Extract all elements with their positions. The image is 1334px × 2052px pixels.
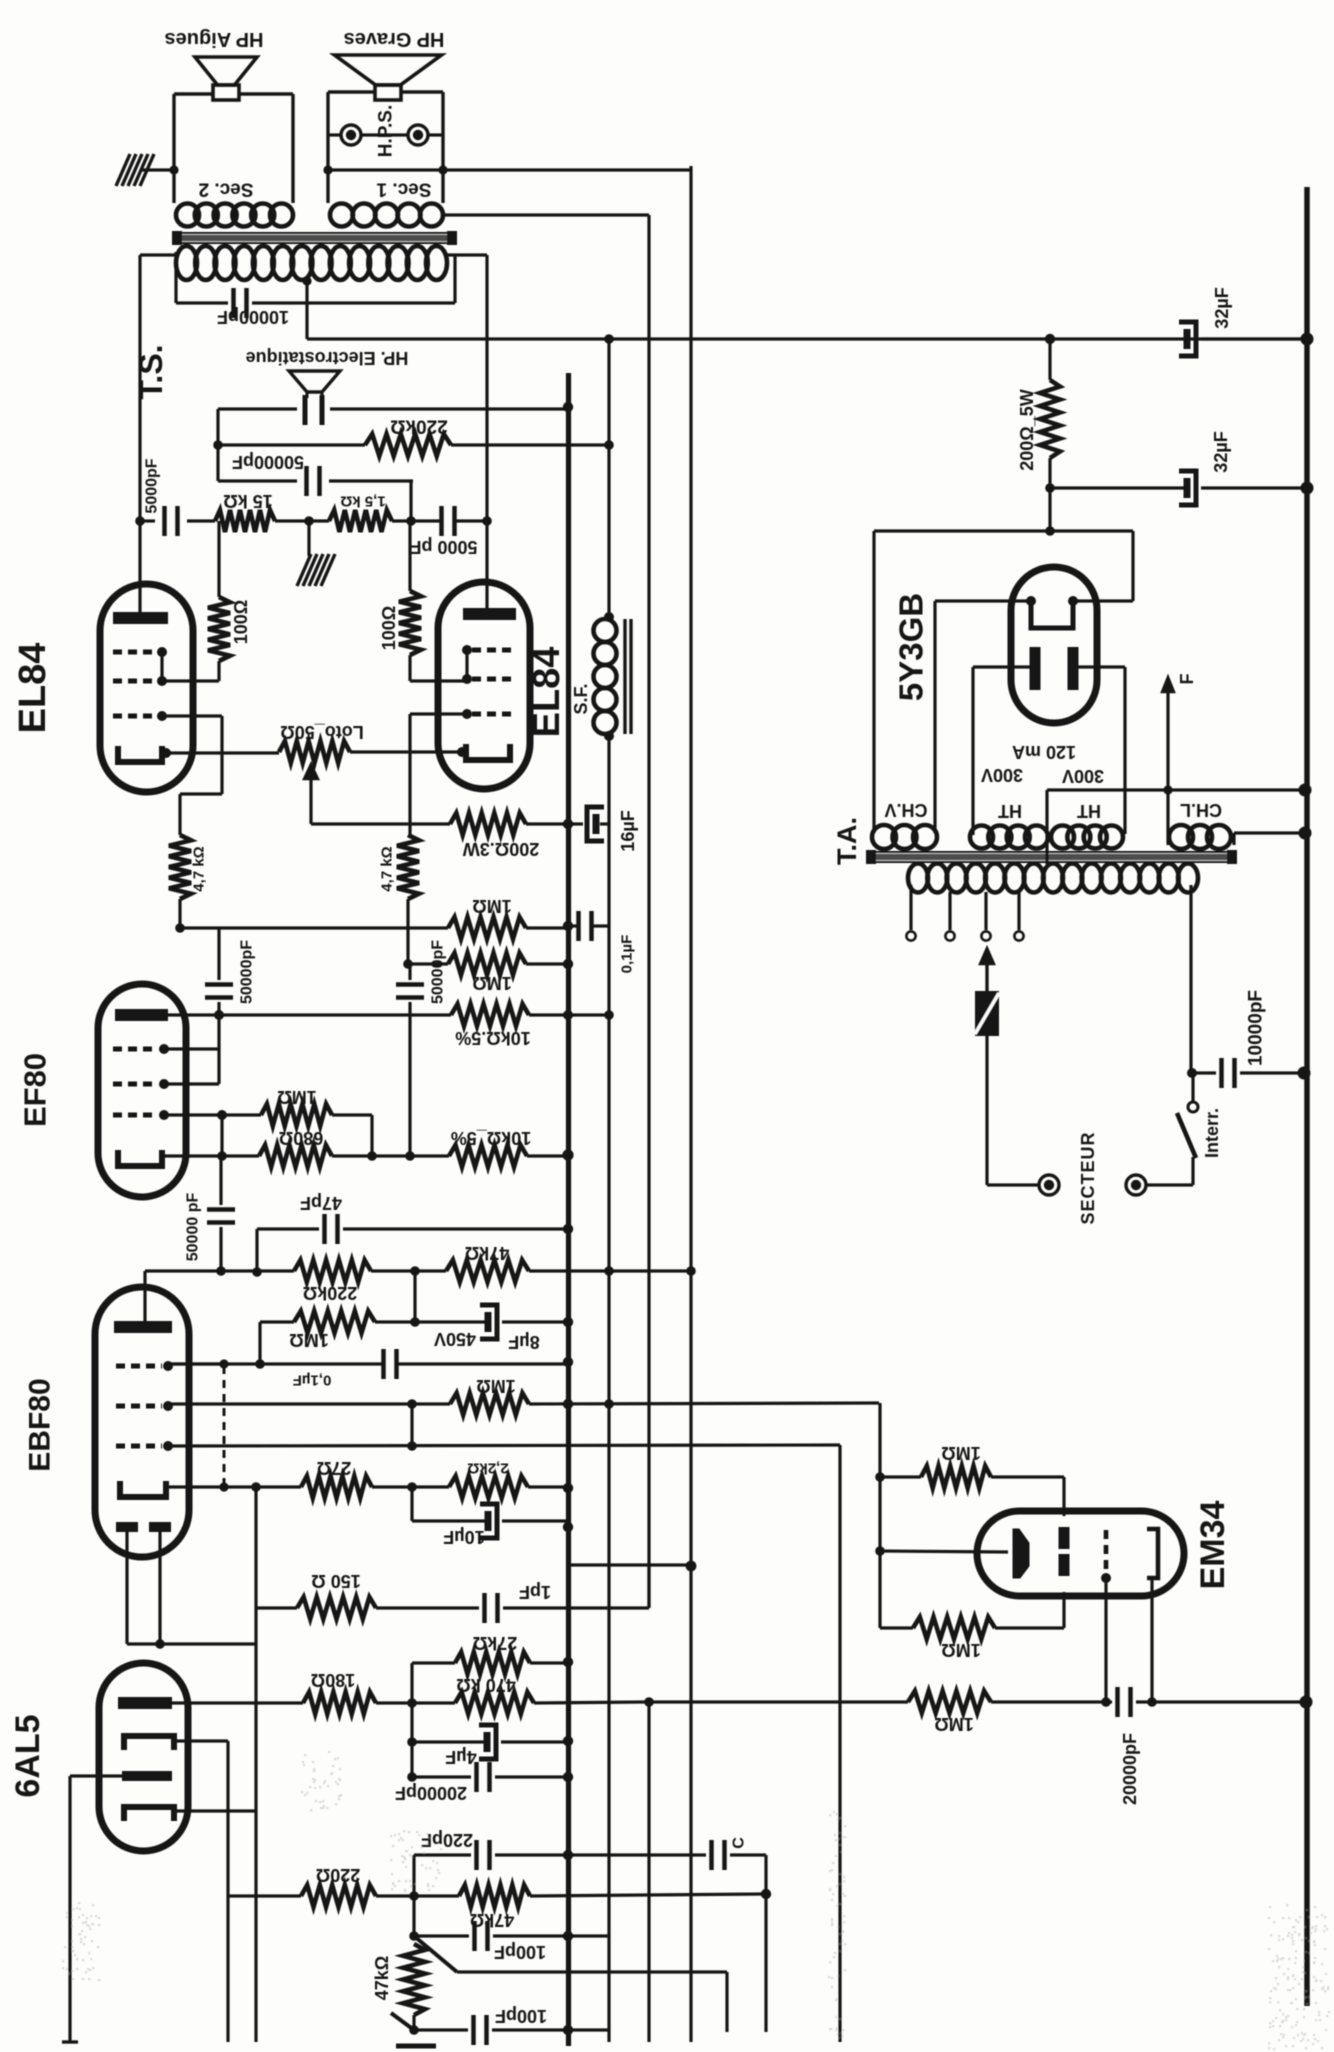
svg-text:10µF: 10µF (443, 1527, 484, 1547)
svg-text:220kΩ: 220kΩ (303, 1283, 357, 1303)
plates 5Y3GB (1030, 647, 1041, 690)
resistor 680R (259, 1145, 332, 1167)
wire bus x840 (EBF80 grid line) (838, 1445, 841, 2042)
svg-text:50000 pF: 50000 pF (185, 1193, 202, 1262)
svg-text:Loto_50Ω: Loto_50Ω (280, 722, 363, 742)
svg-text:1MΩ: 1MΩ (289, 1330, 328, 1350)
svg-text:47kΩ: 47kΩ (465, 1243, 509, 1263)
wire B+ centre tap (305, 281, 308, 339)
svg-text:220kΩ: 220kΩ (390, 416, 448, 437)
tube EF80 (98, 984, 186, 1197)
wire EL84-1 screen to 100R (162, 679, 219, 682)
svg-text:4µF: 4µF (445, 1747, 476, 1767)
capacitor 5000pF right (392, 519, 440, 522)
switch Interr. (1146, 1183, 1193, 1186)
capacitor 16uF (593, 814, 600, 834)
svg-text:20000pF: 20000pF (395, 1783, 467, 1803)
svg-text:27Ω: 27Ω (317, 1458, 351, 1478)
svg-text:47pF: 47pF (300, 1193, 342, 1213)
resistor 10k 5% cathode (449, 1145, 527, 1167)
svg-text:50000pF: 50000pF (239, 940, 256, 1004)
tube EL84 no.2 (438, 582, 530, 789)
resistor 1M EM34 top (880, 1475, 921, 1478)
wire AVC row (649, 1700, 908, 1703)
svg-text:15 kΩ: 15 kΩ (223, 491, 272, 511)
svg-text:220pF: 220pF (421, 1830, 473, 1850)
svg-text:20000pF: 20000pF (1120, 1733, 1140, 1805)
wire EL84-2 g3-g2 tie (465, 650, 468, 679)
wire bus x691 (689, 166, 692, 2042)
svg-text:CH.V: CH.V (884, 800, 927, 820)
capacitor 4uF (410, 1703, 413, 1742)
capacitor 100pF no.2 (412, 2015, 415, 2030)
svg-text:5000pF: 5000pF (144, 458, 161, 513)
capacitor 50000pF no.3 (219, 1156, 222, 1205)
wire diode plate leads (125, 1532, 128, 1644)
capacitor 20000pF AVC (1106, 1700, 1112, 1703)
choke S.F. (604, 612, 614, 622)
capacitor 50000pF top (218, 479, 297, 482)
svg-text:0,1µF: 0,1µF (619, 935, 636, 974)
wire selector to mains (987, 1183, 1039, 1186)
capacitor 32uF no.2 (1050, 486, 1185, 489)
svg-text:450V: 450V (434, 1329, 476, 1349)
ground top left (116, 154, 130, 186)
switch lever bottom2 (391, 2013, 414, 2030)
resistor 180R (303, 1692, 376, 1714)
svg-text:H.P.S.: H.P.S. (376, 105, 397, 157)
svg-text:5000 pF: 5000 pF (410, 537, 477, 557)
resistor 4,7k no.1 (169, 835, 191, 899)
capacitor 47pF (255, 1229, 258, 1271)
resistor 470k (455, 1692, 534, 1714)
Sec.2 box (172, 94, 175, 203)
svg-text:CH.L: CH.L (1180, 800, 1222, 820)
svg-text:120 mA: 120 mA (1012, 742, 1076, 762)
resistor 15k (187, 519, 215, 522)
svg-text:1MΩ: 1MΩ (476, 1376, 515, 1396)
svg-text:150 Ω: 150 Ω (311, 1571, 360, 1591)
resistor 1M no.1 (448, 917, 526, 939)
speaker HP electrostatique cone (289, 371, 340, 392)
wire EBF80 cathode row (166, 1485, 301, 1488)
svg-text:100Ω: 100Ω (379, 606, 399, 650)
wire 6AL5 plate2 input (70, 1774, 122, 1777)
wire CH.L right (1232, 833, 1235, 845)
capacitor 220pF (412, 1855, 415, 1896)
EM34 target electrode (1013, 1529, 1029, 1578)
svg-text:EBF80: EBF80 (24, 1378, 57, 1471)
tube EBF80 (95, 1287, 189, 1557)
wire EM34 target (880, 1551, 1008, 1552)
core T.S. (176, 233, 453, 243)
svg-text:S.F.: S.F. (571, 683, 591, 714)
core T.A. (870, 852, 1233, 862)
winding Sec.2 (176, 204, 199, 227)
wire EF80 g3 g2 (164, 1047, 219, 1050)
resistor 2,2k (449, 1476, 528, 1498)
EM34 cathode (1147, 1529, 1158, 1578)
wire EL84-1 grid down (162, 714, 222, 717)
capacitor 20000pF (410, 1742, 413, 1777)
taps T.A. primary (909, 885, 912, 930)
svg-text:300V: 300V (981, 765, 1023, 785)
svg-text:200Ω_5W: 200Ω_5W (1017, 389, 1037, 470)
capacitor 50000pF no.1 (217, 928, 220, 980)
speaker HP Graves (335, 55, 442, 85)
wire primary right end (447, 253, 487, 256)
resistor 1M no.2 (406, 899, 409, 964)
wire EBF80 g3 tie (168, 1362, 224, 1365)
wire EL84-1 cathode (161, 748, 171, 758)
resistor 1M grid EF80 (261, 1104, 332, 1126)
wire EL84-2 screen to 100R (410, 679, 467, 682)
svg-text:EM34: EM34 (1194, 1501, 1232, 1590)
switch lever bottom (414, 1936, 457, 1972)
wire ground bus thick left (566, 373, 571, 2046)
capacitor 10uF cathode (410, 1487, 413, 1521)
capacitor 8uF 450V (413, 1271, 416, 1322)
svg-text:HP Graves: HP Graves (344, 28, 445, 50)
svg-text:100pF: 100pF (494, 1942, 546, 1962)
resistor 220k top (218, 443, 365, 446)
wire 6AL5 cathode1 (174, 1739, 228, 1742)
svg-text:EL84: EL84 (12, 643, 54, 734)
voltage selector arrow (980, 948, 994, 964)
svg-text:1MΩ: 1MΩ (941, 1443, 980, 1463)
resistor 4,7k no.2 (397, 835, 419, 899)
wire anode EL84-2 riser (485, 255, 488, 608)
wire EBF80 g1 row (168, 1445, 840, 1446)
wire EBF80 anode riser (143, 1271, 146, 1327)
svg-text:1MΩ: 1MΩ (472, 973, 511, 993)
resistor 220k EBF80 (294, 1260, 371, 1282)
svg-text:1MΩ: 1MΩ (941, 1640, 980, 1660)
wire EF80 anode row (168, 1013, 451, 1016)
svg-text:220Ω: 220Ω (316, 1865, 360, 1885)
wire EF80 grid1 (164, 1113, 261, 1116)
terminal SECTEUR left (1039, 1175, 1059, 1195)
svg-text:4,7 kΩ: 4,7 kΩ (191, 846, 208, 891)
svg-text:1MΩ: 1MΩ (934, 1714, 973, 1734)
svg-text:HP Aigues: HP Aigues (165, 28, 264, 50)
resistor 100R no.2 (399, 591, 421, 655)
wire 5Y3GB plates row (973, 665, 1035, 668)
svg-text:50000pF: 50000pF (430, 940, 447, 1004)
capacitor 50000pF no.2 (408, 964, 411, 980)
resistor 10k 5% anode (451, 1004, 529, 1026)
wire 1M row1 (178, 899, 181, 928)
resistor 1M AVC (908, 1691, 991, 1713)
svg-text:F: F (1177, 674, 1197, 685)
wire CH.L left riser (1166, 833, 1169, 845)
svg-text:16µF: 16µF (618, 810, 638, 851)
svg-text:470 kΩ: 470 kΩ (456, 1675, 515, 1695)
wire EF80 cathode row (162, 1154, 259, 1157)
label F arrow (1162, 677, 1174, 692)
svg-text:HP. Electrostatique: HP. Electrostatique (246, 348, 409, 368)
svg-text:8µF: 8µF (508, 1332, 539, 1352)
wire HT centre tap (1045, 790, 1048, 864)
wire EM34 node left (878, 1403, 881, 1628)
wire 6AL5 cathode2 (174, 1809, 256, 1812)
wire 220R row (228, 1894, 301, 1897)
svg-text:HT: HT (998, 801, 1022, 821)
svg-text:50000pF: 50000pF (232, 452, 304, 472)
svg-text:100pF: 100pF (495, 2006, 547, 2026)
wire primary left end (140, 253, 179, 256)
wire EL84-2 cathode (457, 747, 467, 757)
svg-text:5Y3GB: 5Y3GB (893, 593, 930, 701)
svg-text:680Ω: 680Ω (279, 1128, 323, 1148)
svg-text:32µF: 32µF (1211, 431, 1231, 472)
svg-text:100Ω: 100Ω (231, 600, 251, 644)
tube EM34 (977, 1511, 1184, 1596)
resistor 220R (301, 1885, 376, 1907)
wire T.A. primary right to switch (1189, 885, 1192, 1073)
wire EBF80 k vertical (254, 1487, 257, 2042)
wire EBF80 g2 row (168, 1402, 450, 1405)
wire grid network y521 (140, 519, 155, 522)
resistor 200R 3W (450, 813, 526, 835)
svg-text:1MΩ: 1MΩ (472, 896, 511, 916)
resistor 1,5k (329, 510, 392, 532)
resistor 1M g2 (450, 1393, 529, 1415)
wire EM34 grid lead (1104, 1578, 1107, 1702)
capacitor 5000pF left (162, 506, 167, 536)
capacitor 10000pF mains (1193, 1071, 1216, 1074)
svg-text:10kΩ.5%: 10kΩ.5% (455, 1028, 530, 1048)
capacitor 32uF no.1 (1184, 329, 1191, 349)
tube 6AL5 (99, 1663, 188, 1851)
svg-text:Interr.: Interr. (1202, 1108, 1222, 1158)
speaker HP Aigues (195, 57, 257, 85)
svg-text:200Ω.3W: 200Ω.3W (463, 839, 539, 859)
svg-text:EL84: EL84 (526, 647, 568, 738)
terminal SECTEUR right (1126, 1175, 1146, 1195)
svg-text:2,2kΩ: 2,2kΩ (467, 1460, 508, 1477)
potentiometer Loto 50R (279, 741, 350, 763)
svg-text:EF80: EF80 (18, 1053, 53, 1127)
winding Sec.1 (330, 204, 353, 227)
winding T.S. primary (176, 246, 197, 280)
wire 5Y3GB cathode row (935, 599, 1031, 602)
filament 5Y3GB (1031, 601, 1073, 628)
wire 6AL5 plate1 row (172, 1701, 303, 1704)
resistor 200R 5W (1048, 339, 1051, 380)
svg-text:300V: 300V (1062, 766, 1104, 786)
wire speaker return to bus x691 (328, 168, 691, 171)
wire EL84-1 g3-g2 tie (160, 652, 163, 681)
svg-text:1,5 kΩ: 1,5 kΩ (340, 493, 385, 510)
wire EL84-2 grid down (410, 712, 467, 715)
capacitor electrostatic speaker (303, 395, 308, 425)
svg-text:Sec. 1: Sec. 1 (376, 179, 431, 200)
EM34 grid dashed (1104, 1530, 1109, 1572)
svg-text:6AL5: 6AL5 (9, 1714, 47, 1797)
resistor 47k vertical (403, 1944, 425, 2015)
wire electrostatic node (218, 407, 297, 410)
wire EBF80 anode row (145, 1269, 294, 1272)
terminal H.P.S. left (341, 125, 361, 145)
svg-text:0,1µF: 0,1µF (293, 1372, 332, 1389)
wire bus x649 (647, 215, 650, 1608)
resistor 1M EM34 bottom (880, 1626, 913, 1629)
tube 5Y3GB (1011, 567, 1097, 723)
wire rectifier top (1048, 488, 1051, 531)
H.P.S. box (326, 92, 329, 203)
svg-text:27kΩ: 27kΩ (473, 1633, 517, 1653)
resistor 150R (257, 1606, 297, 1609)
wire B+ bus x609 (607, 340, 610, 617)
svg-text:32µF: 32µF (1212, 287, 1232, 328)
svg-text:HT: HT (1077, 801, 1101, 821)
capacitor 0,1uF B+ (568, 924, 578, 927)
terminal H.P.S. right (408, 125, 428, 145)
resistor 47k bottom (459, 1885, 530, 1907)
svg-text:T.A.: T.A. (832, 817, 862, 865)
svg-text:10000pF: 10000pF (217, 307, 289, 327)
wire EM34 cathode lead (1150, 1580, 1153, 1702)
svg-text:1MΩ: 1MΩ (277, 1087, 316, 1107)
ground mid (307, 521, 310, 556)
capacitor C (568, 1853, 706, 1856)
capacitor 100pF no.1 (412, 1896, 415, 1936)
wire B+ rail to right (307, 337, 1307, 340)
EM34 anode bars (1059, 1527, 1070, 1549)
tube EL84 no.1 (100, 584, 193, 792)
resistor 27R (301, 1476, 372, 1498)
svg-text:47kΩ: 47kΩ (372, 1956, 392, 2000)
winding T.A. primary (908, 864, 928, 893)
resistor 47k EBF80 (446, 1260, 529, 1282)
svg-text:SECTEUR: SECTEUR (1078, 1131, 1098, 1224)
resistor 1M anode load EM feed (260, 1320, 294, 1323)
wire anode EL84-1 riser (138, 255, 141, 612)
wire Sec.1 to bus x649 (443, 213, 649, 216)
wire 6AL5 link row (570, 1563, 691, 1566)
wire HT bus thick right (1304, 187, 1310, 2006)
wire cathode bias node (311, 822, 450, 825)
svg-text:4,7 kΩ: 4,7 kΩ (379, 846, 396, 891)
resistor 27k (412, 1661, 455, 1664)
capacitor 1pF (376, 1606, 479, 1609)
svg-text:Sec. 2: Sec. 2 (199, 179, 254, 200)
capacitor 0,1uF grid (168, 1362, 384, 1365)
svg-text:10000pF: 10000pF (1246, 990, 1267, 1066)
svg-text:1pF: 1pF (519, 1582, 551, 1602)
capacitor 10000pF across primary (176, 301, 228, 304)
svg-text:C: C (731, 1837, 748, 1849)
diode plates EBF80 (116, 1522, 138, 1532)
svg-text:180Ω: 180Ω (311, 1670, 355, 1690)
svg-text:10kΩ_5%: 10kΩ_5% (451, 1128, 532, 1148)
resistor 100R no.1 (208, 597, 230, 661)
